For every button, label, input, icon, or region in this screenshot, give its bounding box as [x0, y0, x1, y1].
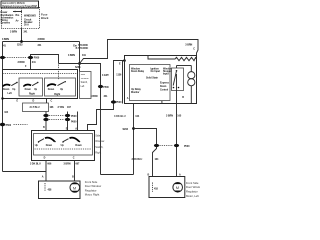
- svg-text:Right: Right: [29, 92, 35, 95]
- svg-text:P500: P500: [103, 86, 109, 89]
- svg-text:Down: Down: [46, 144, 53, 147]
- svg-text:3 BRN: 3 BRN: [185, 43, 192, 46]
- svg-text:Down Relay: Down Relay: [131, 70, 145, 73]
- svg-text:Bm: Bm: [16, 14, 20, 17]
- svg-text:Down: Down: [3, 88, 10, 91]
- svg-text:On Input: On Input: [151, 70, 161, 73]
- svg-text:WINDOWS: WINDOWS: [24, 14, 36, 17]
- svg-text:Window: Window: [95, 139, 104, 143]
- svg-text:Motor, Left: Motor, Left: [186, 194, 199, 198]
- svg-text:3 BRN: 3 BRN: [68, 54, 75, 57]
- svg-text:Front Side: Front Side: [186, 181, 199, 185]
- svg-text:C400C: C400C: [81, 47, 89, 50]
- svg-text:3 BRN: 3 BRN: [10, 30, 17, 33]
- svg-text:M: M: [73, 185, 76, 190]
- svg-text:Window: Window: [81, 78, 89, 80]
- svg-text:3 DK BLU: 3 DK BLU: [132, 158, 143, 161]
- svg-text:S263: S263: [123, 128, 129, 131]
- svg-text:1136: 1136: [116, 74, 122, 77]
- svg-text:Block: Block: [41, 16, 49, 20]
- svg-text:S253: S253: [17, 44, 23, 47]
- svg-text:3 LT BLU: 3 LT BLU: [30, 106, 40, 109]
- svg-text:P500: P500: [116, 101, 122, 104]
- svg-text:P500: P500: [6, 124, 12, 127]
- svg-text:Switch,: Switch,: [95, 145, 103, 149]
- svg-text:Door Window: Door Window: [186, 185, 200, 189]
- svg-text:Side: Side: [81, 74, 86, 76]
- svg-text:S266: S266: [75, 66, 81, 69]
- svg-text:Systems: Systems: [1, 22, 11, 25]
- svg-text:Left: Left: [81, 85, 85, 88]
- svg-text:3 DK BLU: 3 DK BLU: [30, 163, 41, 166]
- svg-text:Motor, Right: Motor, Right: [85, 193, 100, 197]
- svg-text:3 BRN: 3 BRN: [64, 163, 71, 166]
- svg-text:P500: P500: [34, 56, 40, 59]
- svg-text:3 TAN: 3 TAN: [58, 106, 65, 109]
- svg-text:Right: Right: [54, 93, 60, 96]
- svg-text:30 A: 30 A: [24, 24, 29, 27]
- svg-text:P500: P500: [184, 145, 190, 148]
- svg-text:Down: Down: [25, 88, 32, 91]
- svg-text:Input: Input: [163, 73, 169, 76]
- svg-text:Down: Down: [75, 144, 82, 147]
- svg-text:3 DK BLU: 3 DK BLU: [114, 114, 126, 118]
- svg-text:3 BRN: 3 BRN: [91, 95, 98, 98]
- svg-text:P500: P500: [71, 115, 77, 118]
- svg-text:3 BRN: 3 BRN: [38, 38, 45, 41]
- svg-text:P600: P600: [71, 120, 77, 123]
- svg-text:Side: Side: [95, 134, 101, 138]
- svg-text:Control: Control: [160, 89, 169, 92]
- svg-text:Left: Left: [8, 92, 12, 95]
- svg-text:Down: Down: [48, 88, 55, 91]
- svg-text:Monitor: Monitor: [131, 91, 140, 94]
- svg-text:3 BRN: 3 BRN: [18, 61, 25, 64]
- svg-text:3 BRN: 3 BRN: [2, 38, 9, 41]
- svg-text:3 GRY: 3 GRY: [102, 74, 109, 77]
- svg-text:Switch,: Switch,: [81, 81, 88, 84]
- svg-text:M: M: [176, 185, 179, 190]
- svg-text:3 BRN: 3 BRN: [166, 115, 173, 118]
- svg-text:Right: Right: [95, 151, 101, 155]
- svg-text:Regulator: Regulator: [186, 190, 198, 194]
- svg-text:Solid State: Solid State: [146, 77, 159, 80]
